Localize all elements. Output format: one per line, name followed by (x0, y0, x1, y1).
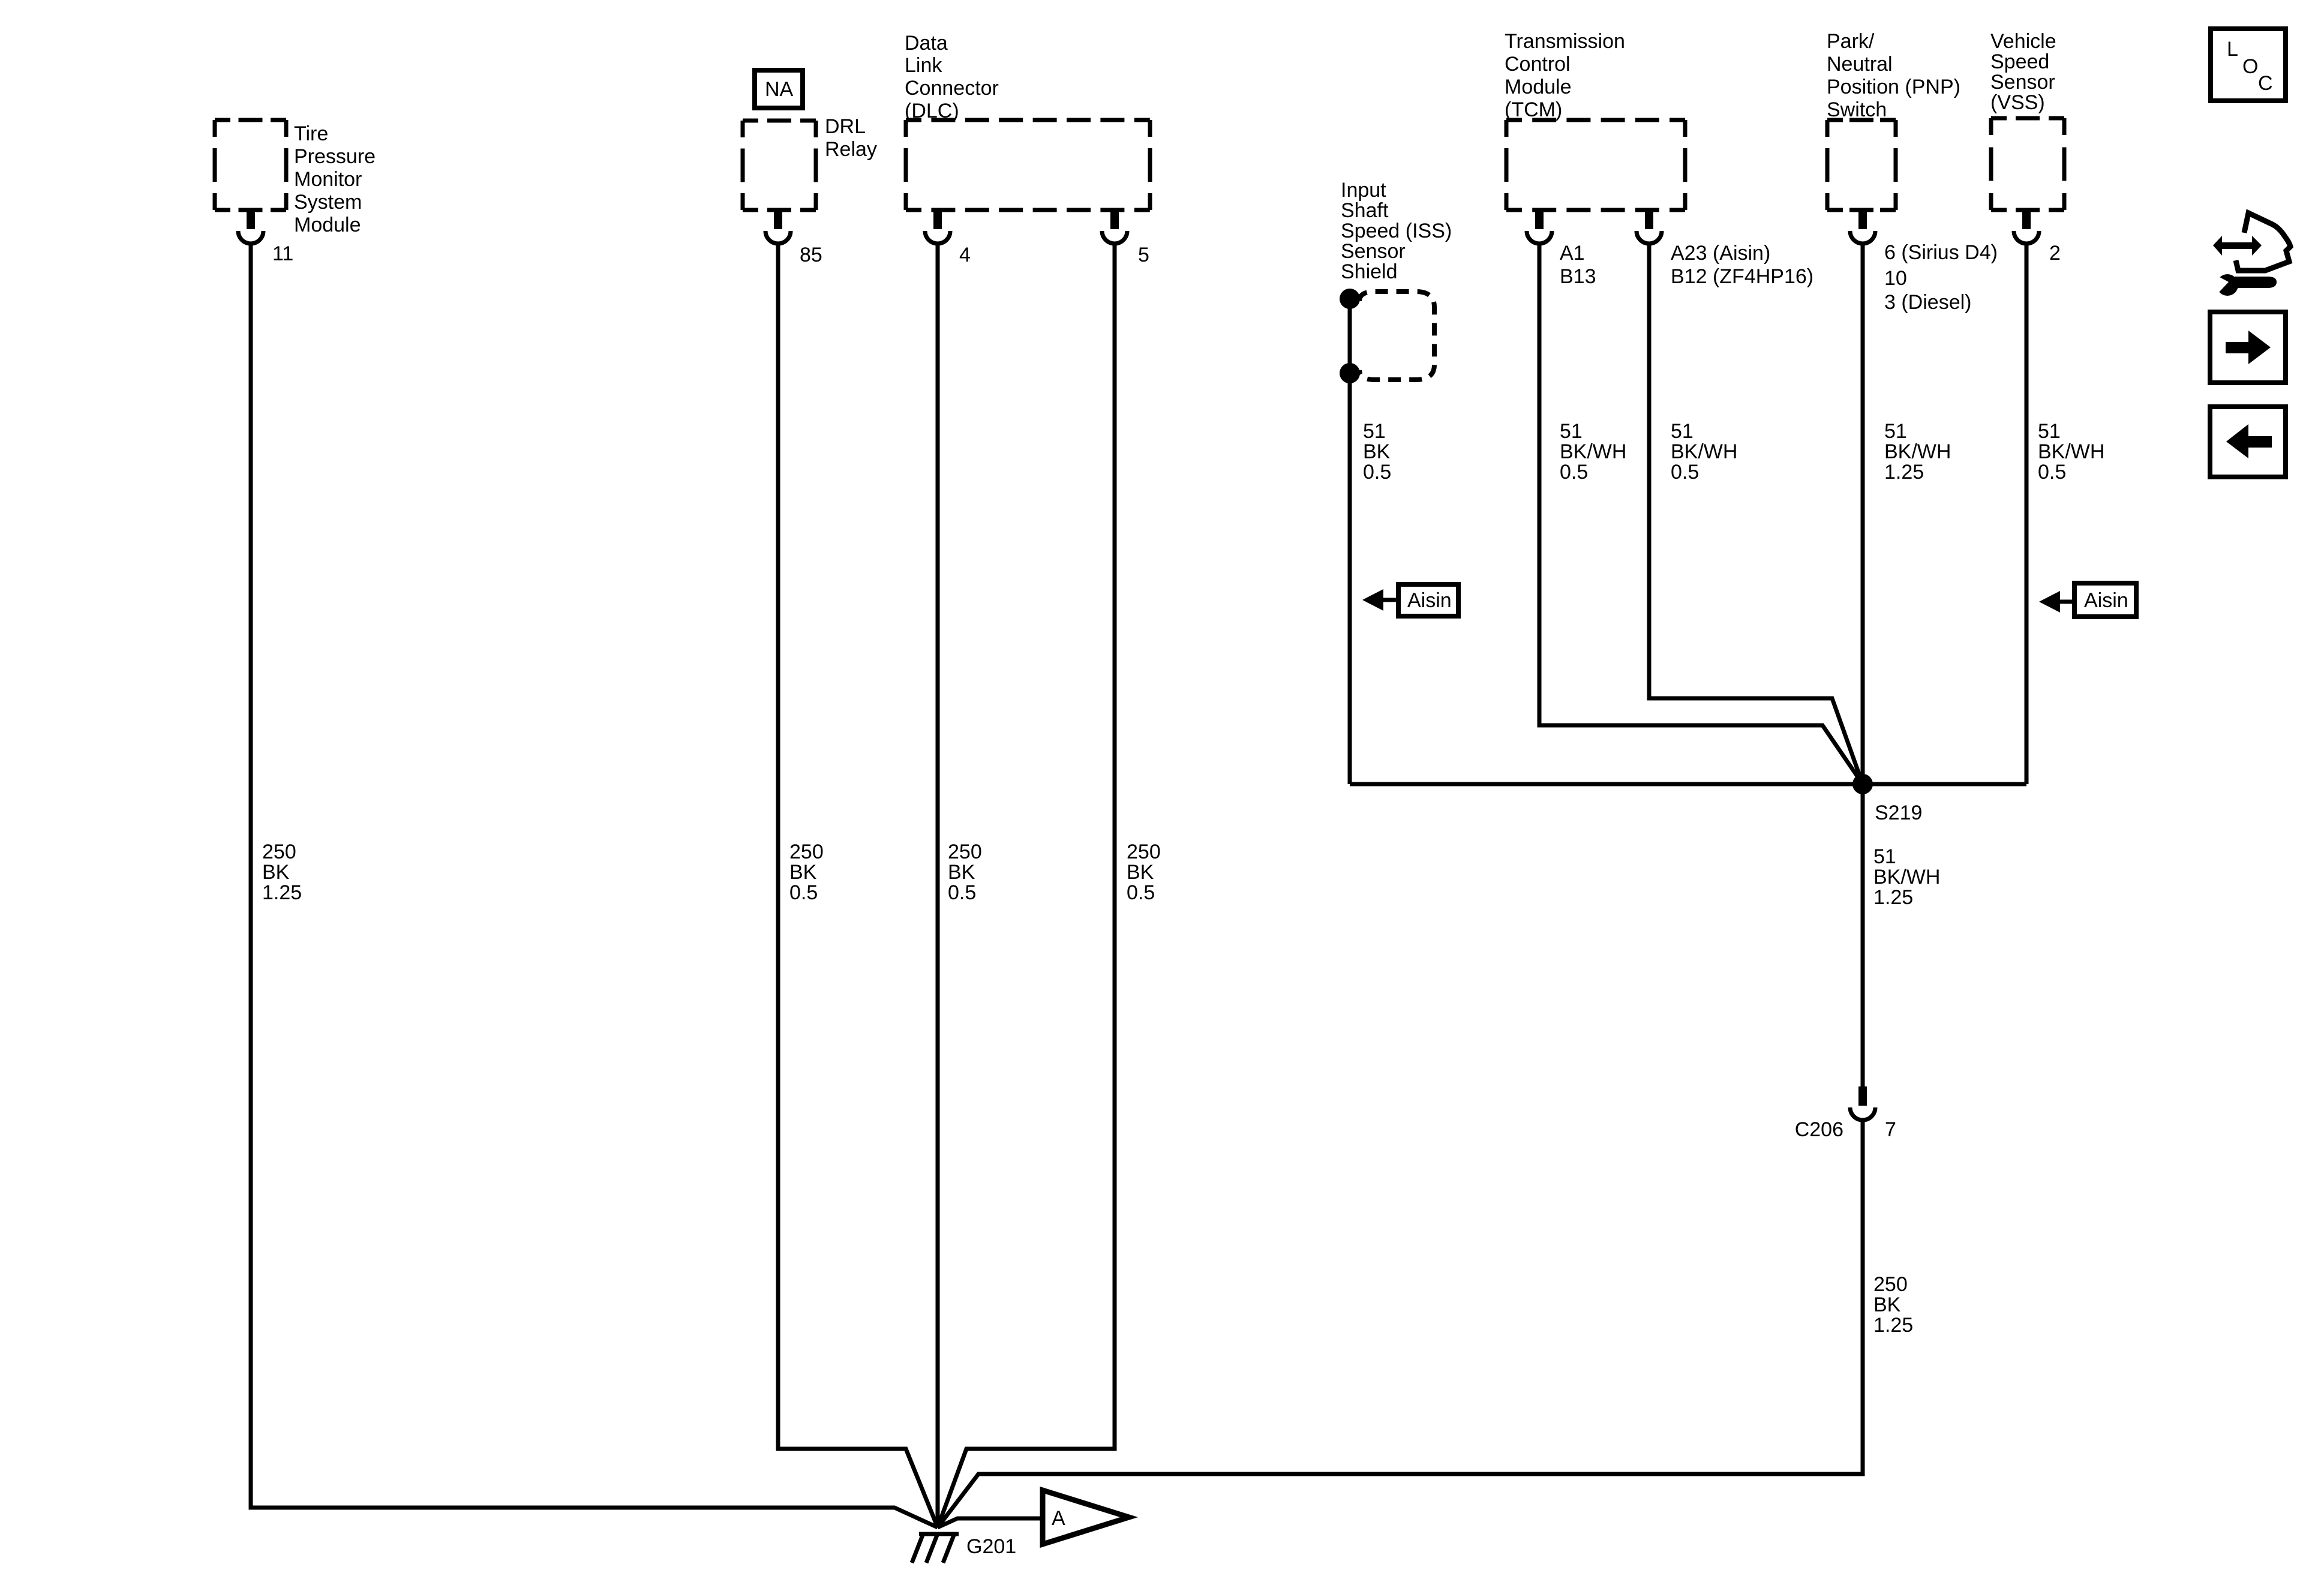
svg-text:Speed: Speed (1990, 50, 2049, 73)
svg-text:51: 51 (1671, 420, 1694, 443)
svg-text:5: 5 (1138, 244, 1149, 266)
svg-text:BK: BK (1127, 861, 1154, 884)
svg-text:Park/: Park/ (1827, 30, 1875, 53)
svg-text:BK: BK (1363, 440, 1391, 463)
svg-text:Link: Link (905, 54, 942, 77)
svg-text:Module: Module (294, 214, 361, 236)
svg-text:Sensor: Sensor (1990, 71, 2055, 94)
svg-text:L: L (2227, 38, 2238, 61)
svg-text:1.25: 1.25 (1873, 1314, 1913, 1337)
svg-text:10: 10 (1884, 267, 1907, 290)
svg-text:1.25: 1.25 (1884, 461, 1924, 484)
svg-text:0.5: 0.5 (1127, 881, 1155, 904)
svg-text:1.25: 1.25 (1873, 886, 1913, 909)
svg-text:(VSS): (VSS) (1990, 91, 2045, 114)
svg-text:BK/WH: BK/WH (1884, 440, 1951, 463)
svg-text:System: System (294, 191, 362, 214)
svg-text:0.5: 0.5 (789, 881, 818, 904)
svg-text:250: 250 (948, 840, 982, 863)
svg-text:0.5: 0.5 (948, 881, 976, 904)
svg-text:Aisin: Aisin (2084, 589, 2128, 612)
svg-text:51: 51 (1363, 420, 1386, 443)
svg-text:BK: BK (789, 861, 817, 884)
svg-text:G201: G201 (966, 1535, 1016, 1558)
svg-text:Vehicle: Vehicle (1990, 30, 2056, 53)
svg-text:Input: Input (1341, 179, 1386, 202)
svg-text:51: 51 (1873, 845, 1896, 868)
svg-text:250: 250 (1873, 1273, 1908, 1296)
svg-text:A: A (1052, 1507, 1065, 1530)
svg-text:C: C (2258, 72, 2273, 95)
svg-text:Control: Control (1505, 53, 1571, 76)
svg-text:250: 250 (1127, 840, 1161, 863)
svg-text:Shaft: Shaft (1341, 199, 1389, 222)
svg-text:BK/WH: BK/WH (1671, 440, 1737, 463)
svg-text:(TCM): (TCM) (1505, 98, 1562, 121)
svg-text:B12 (ZF4HP16): B12 (ZF4HP16) (1671, 265, 1813, 288)
svg-text:Relay: Relay (825, 138, 877, 161)
svg-text:2: 2 (2049, 242, 2061, 265)
svg-text:Monitor: Monitor (294, 168, 362, 191)
svg-text:Shield: Shield (1341, 260, 1398, 283)
svg-text:S219: S219 (1875, 801, 1922, 824)
svg-text:0.5: 0.5 (1363, 461, 1391, 484)
svg-text:250: 250 (789, 840, 824, 863)
svg-text:Neutral: Neutral (1827, 53, 1893, 76)
svg-text:Transmission: Transmission (1505, 30, 1625, 53)
svg-text:BK/WH: BK/WH (1560, 440, 1626, 463)
svg-text:DRL: DRL (825, 115, 866, 138)
svg-text:O: O (2242, 55, 2258, 78)
svg-text:BK: BK (948, 861, 975, 884)
svg-text:11: 11 (272, 242, 293, 265)
svg-text:Sensor: Sensor (1341, 240, 1406, 263)
svg-text:Data: Data (905, 32, 948, 55)
svg-text:51: 51 (1560, 420, 1583, 443)
svg-text:51: 51 (1884, 420, 1907, 443)
svg-text:85: 85 (800, 244, 822, 266)
svg-text:51: 51 (2038, 420, 2061, 443)
svg-text:Aisin: Aisin (1407, 589, 1452, 612)
svg-text:A1: A1 (1560, 242, 1585, 265)
svg-text:BK: BK (1873, 1293, 1901, 1316)
svg-text:Switch: Switch (1827, 98, 1887, 121)
svg-text:Pressure: Pressure (294, 145, 376, 168)
svg-text:Position (PNP): Position (PNP) (1827, 76, 1960, 98)
svg-text:(DLC): (DLC) (905, 100, 959, 122)
svg-text:Module: Module (1505, 76, 1572, 98)
svg-text:Speed (ISS): Speed (ISS) (1341, 220, 1452, 242)
svg-text:6 (Sirius D4): 6 (Sirius D4) (1884, 241, 1998, 264)
svg-text:0.5: 0.5 (1671, 461, 1699, 484)
svg-text:Connector: Connector (905, 77, 999, 100)
svg-text:1.25: 1.25 (262, 881, 302, 904)
svg-text:0.5: 0.5 (2038, 461, 2066, 484)
svg-text:0.5: 0.5 (1560, 461, 1588, 484)
svg-text:250: 250 (262, 840, 296, 863)
svg-text:4: 4 (959, 244, 971, 266)
svg-text:BK/WH: BK/WH (2038, 440, 2104, 463)
svg-text:7: 7 (1885, 1118, 1896, 1141)
svg-text:B13: B13 (1560, 265, 1596, 288)
svg-text:C206: C206 (1795, 1118, 1843, 1141)
svg-text:BK: BK (262, 861, 290, 884)
svg-text:Tire: Tire (294, 122, 328, 145)
svg-text:BK/WH: BK/WH (1873, 866, 1940, 888)
svg-text:NA: NA (765, 78, 794, 101)
svg-text:A23 (Aisin): A23 (Aisin) (1671, 242, 1770, 265)
svg-text:3 (Diesel): 3 (Diesel) (1884, 291, 1971, 314)
